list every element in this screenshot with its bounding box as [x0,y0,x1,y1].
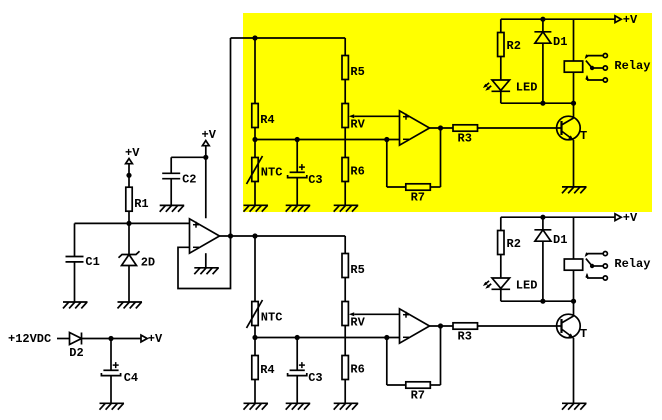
node: junction of rail and R4/NTC branch (bottom channel) [252,233,257,238]
diode D1 (bottom channel) [534,229,551,231]
thermistor NTC (top channel) [252,158,258,182]
op-amp buffer U1 [190,219,220,253]
potentiometer RV (bottom channel) [342,302,348,326]
wire: feedback bottom run (top channel) [387,186,406,188]
resistor R6 (top channel) [342,158,348,182]
wire: bus down to lower divider element (bottom channel) [254,338,256,356]
yellow highlight of upper channel [243,13,652,212]
wire: R6 to ground (top channel) [344,182,346,206]
relay contact bottom (top channel) [603,78,607,82]
svg-text:C4: C4 [124,371,138,385]
svg-text:LED: LED [516,80,538,94]
svg-text:R3: R3 [458,132,472,146]
ground under R6 (bottom channel) [334,402,359,404]
wire: reference rail to dividers (bottom channel) [220,235,346,237]
wire: reference rail from buffer to dividers (top channel) [231,37,346,39]
wire: +V rail (bottom channel) [501,216,615,218]
relay coil (bottom channel) [564,259,582,270]
wire: feedback bottom run (bottom channel) [387,384,406,386]
wire: rail down to relay coil (bottom channel) [573,217,575,259]
svg-text:R7: R7 [411,191,425,205]
resistor R2 (bottom channel) [498,231,504,255]
capacitor C2 [162,172,180,174]
ground under C1 [63,301,88,303]
relay contact top (bottom channel) [603,252,607,256]
node: D1 bottom junction (top channel) [540,101,545,106]
ground under C4 [100,402,125,404]
node: output junction (bottom channel) [438,323,443,328]
wire: collector from rail to transistor (bottom channel) [573,301,575,316]
ground under zener [118,301,143,303]
node: collector junction (top channel) [571,101,576,106]
relay coil (top channel) [564,61,582,72]
wire: collector from rail to transistor (top channel) [573,103,575,118]
node: solder point under +V terminal [126,173,131,178]
wire: LED to bottom rail (bottom channel) [500,289,502,301]
wire: sense bus to inverting input (top channel) [255,139,400,141]
wire: rail down to R2 (bottom channel) [500,217,502,230]
wire: relay coil to collector node (top channel) [573,72,575,103]
svg-text:T: T [580,129,587,143]
svg-text:+12VDC: +12VDC [8,332,51,346]
wire: R2 to LED (top channel) [500,57,502,81]
wire: R5 to RV (top channel) [344,80,346,104]
node: junction +V / C2 [203,155,208,160]
node: junction C4 tap [108,336,113,341]
svg-text:D2: D2 [69,346,83,360]
svg-text:R2: R2 [507,237,521,251]
node: D1 bottom junction (bottom channel) [540,299,545,304]
node: junction of rail and R4/NTC branch (top channel) [252,35,257,40]
node: collector junction (bottom channel) [571,299,576,304]
svg-text:+V: +V [148,332,163,346]
ground under R6 (top channel) [334,204,359,206]
resistor R3 (bottom channel) [453,323,478,329]
svg-text:Relay: Relay [614,59,650,73]
wire: output of op-amp (bottom channel) [430,325,454,327]
node: output junction (top channel) [438,125,443,130]
wire: emitter to ground (top channel) [573,140,575,187]
svg-text:LED: LED [516,278,538,292]
wire: D2 to +V terminal [82,338,142,340]
svg-text:R6: R6 [350,363,364,377]
wire: C3 to ground (bottom channel) [296,376,298,404]
ground under C3 (top channel) [286,204,311,206]
wire: D1 to bottom rail (top channel) [542,43,544,103]
wire: feedback down from inverting input (top channel) [386,140,388,188]
svg-text:+V: +V [125,146,140,160]
wire: emitter to ground (bottom channel) [573,338,575,403]
wire: RV to R6 crossing bus (top channel) [344,128,346,158]
wire: feedback up to output (bottom channel) [440,326,442,385]
relay contact blade (top channel) [603,66,607,70]
wire: rail to R5 (bottom channel) [344,236,346,254]
wire: input to D2 [57,338,70,340]
wire: bus down to C1 [74,223,76,256]
diode D1 (top channel) [534,31,551,33]
ground under transistor (top channel) [562,186,587,188]
svg-text:R7: R7 [411,389,425,403]
relay contact bottom (bottom channel) [603,276,607,280]
wire: +V down to buffer op-amp power pin [205,146,207,219]
node: junction bus / C3 (top channel) [295,137,300,142]
wire: R2 to LED (bottom channel) [500,255,502,279]
relay contact top (top channel) [603,54,607,58]
terminal +V (top channel) [615,16,621,23]
thermistor NTC (bottom channel) [252,302,258,326]
svg-text:RV: RV [350,316,365,330]
node: feedback junction on inverting input (top channel) [384,137,389,142]
potentiometer RV (top channel) [342,104,348,128]
svg-text:R5: R5 [350,65,364,79]
wire: C1 to ground [74,262,76,302]
wire: bus down to C3 (top channel) [296,140,298,173]
svg-text:NTC: NTC [261,166,283,180]
node: junction bus / C3 (bottom channel) [295,335,300,340]
svg-text:R1: R1 [134,197,148,211]
wire: RV to R6 crossing bus (bottom channel) [344,326,346,356]
resistor R7 (top channel) [406,184,431,190]
node: D1 junction on +V rail (bottom channel) [540,215,545,220]
capacitor C1 [66,256,84,258]
resistor R5 (top channel) [342,56,348,80]
wire: rail down to D1 (top channel) [542,19,544,32]
ground under C3 (bottom channel) [286,402,311,404]
svg-text:C1: C1 [85,255,99,269]
node: junction R1/ZD on reference bus [126,221,131,226]
wire: bus down to lower divider element (top channel) [254,140,256,158]
resistor R6 (bottom channel) [342,356,348,380]
svg-text:R4: R4 [260,113,274,127]
svg-text:C2: C2 [182,173,196,187]
resistor R4 (top channel) [252,104,258,128]
resistor R1 [126,187,132,211]
wire: output of op-amp (top channel) [430,127,454,129]
svg-text:T: T [580,327,587,341]
svg-text:R6: R6 [350,165,364,179]
wire: C3 to ground (top channel) [296,178,298,206]
wire: reference bus to buffer non-inverting input [75,222,190,224]
op-amp comparator (top channel) [400,111,430,145]
relay contact blade (bottom channel) [603,264,607,268]
wire: bus down to zener [128,223,130,254]
node: feedback junction on inverting input (bottom channel) [384,335,389,340]
wire: rail to R5 (top channel) [344,38,346,56]
wire: lower element to ground (top channel) [254,182,256,206]
svg-text:D1: D1 [553,233,567,247]
ground under divider (bottom channel) [244,402,269,404]
resistor R7 (bottom channel) [406,382,431,388]
svg-text:NTC: NTC [261,311,283,325]
wire: rail down to upper divider element (top channel) [254,38,256,104]
ground under buffer op-amp [194,267,219,269]
wire: +V rail (top channel) [501,18,615,20]
ground under C2 [160,204,185,206]
node: buffer output junction to top channel [228,233,233,238]
svg-text:R2: R2 [507,39,521,53]
op-amp comparator (bottom channel) [400,309,430,343]
wire: C2 top connection [171,156,206,158]
wire: LED to bottom rail (top channel) [500,91,502,103]
capacitor C3 (bottom channel) [290,369,305,371]
wire: rail down to R2 (top channel) [500,19,502,32]
wire: feedback down from inverting input (bottom channel) [386,338,388,386]
resistor R4 (bottom channel) [252,356,258,380]
wire: R5 to RV (bottom channel) [344,278,346,302]
svg-text:R4: R4 [260,363,274,377]
resistor R2 (top channel) [498,33,504,57]
wire: bus down to C3 (bottom channel) [296,338,298,371]
wire: zener to ground [128,266,130,303]
svg-text:Relay: Relay [614,257,650,271]
wire: R1 to reference bus [128,211,130,223]
wire: buffer output up to top channel rail [230,38,232,236]
svg-text:+V: +V [623,211,638,225]
capacitor C3 (top channel) [290,171,305,173]
ground under divider (top channel) [244,204,269,206]
wire: down to C4 [110,339,112,371]
wire: sense bus to inverting input (bottom channel) [255,337,400,339]
wire: feedback up to output (top channel) [440,128,442,187]
wire: +V terminal to R1 [128,164,130,188]
wire: buffer ground pin [205,253,207,268]
wire: relay coil to collector node (bottom channel) [573,270,575,301]
wire: rail down to relay coil (top channel) [573,19,575,61]
terminal +V (bottom channel) [615,214,621,221]
svg-text:R3: R3 [458,330,472,344]
LED (top channel) [492,80,510,90]
svg-text:R5: R5 [350,263,364,277]
svg-text:C3: C3 [308,173,322,187]
node: junction bus / divider midpoint (top channel) [252,137,257,142]
svg-text:+V: +V [623,13,638,27]
wire: buffer feedback loop [178,236,231,289]
wire: rail down to D1 (bottom channel) [542,217,544,230]
node: D1 junction on +V rail (top channel) [540,17,545,22]
ground under transistor (bottom channel) [562,402,587,404]
wire: upper element to bus (top channel) [254,128,256,140]
node: junction bus / divider midpoint (bottom channel) [252,335,257,340]
resistor R5 (bottom channel) [342,254,348,278]
LED (bottom channel) [492,278,510,288]
svg-text:C3: C3 [308,371,322,385]
svg-text:+V: +V [202,128,217,142]
zener diode ZD [119,251,140,257]
transistor T (top channel) [557,116,581,140]
wire: D1 to bottom rail (bottom channel) [542,241,544,301]
wire: lower element to ground (bottom channel) [254,380,256,404]
resistor R3 (top channel) [453,125,478,131]
svg-text:RV: RV [350,118,365,132]
svg-text:D1: D1 [553,35,567,49]
wire: C2 to ground [170,179,172,206]
wire: C4 to ground [110,376,112,404]
terminal +V output [141,335,147,342]
capacitor C4 [103,369,118,371]
diode D2 [70,333,82,345]
transistor T (bottom channel) [557,314,581,338]
svg-text:2D: 2D [141,256,155,270]
wire: rail down to upper divider element (bottom channel) [254,236,256,302]
wire: R6 to ground (bottom channel) [344,380,346,404]
wire: upper element to bus (bottom channel) [254,326,256,338]
